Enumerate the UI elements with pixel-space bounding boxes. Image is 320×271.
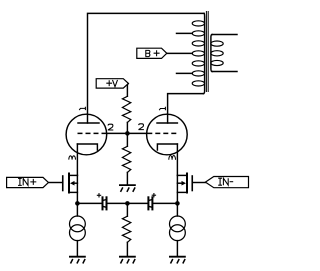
- pin label 1 of V2: [159, 107, 165, 110]
- tube V1 cathode left leg / pin 3 wire down to Q1 drain: [76, 144, 78, 175]
- capacitor C1 right plate: [106, 197, 108, 209]
- tube V2 right triode envelope: [147, 114, 188, 155]
- transformer T1 core line 1: [205, 12, 207, 92]
- wire R1 to grid bias node: [126, 122, 128, 133]
- current source I1 circle 1: [70, 216, 86, 232]
- capacitor C1 plate nubs: [104, 199, 106, 202]
- transformer T1 primary loop 3: [192, 41, 204, 46]
- current source I2 circle 2: [170, 225, 186, 241]
- transformer T1 primary loop 1: [192, 21, 204, 26]
- transistor Q1 bulk arrow: [70, 181, 75, 186]
- transformer T1 primary loop 4: [192, 51, 204, 56]
- label IN-: [218, 178, 222, 185]
- tube V2 cathode right leg / pin 3 wire down to Q2 drain: [176, 144, 178, 175]
- resistor R2 between grid bias node and ground: [122, 146, 130, 172]
- transformer T1 primary winding axis with end hooks: [203, 13, 204, 93]
- tube V2 cathode bar and left leg: [157, 144, 177, 150]
- capacitor C2 plate nubs: [150, 199, 152, 202]
- current source I2 circle 1: [170, 216, 186, 232]
- power flag B+: [137, 48, 167, 58]
- ground symbol below I2: [169, 257, 186, 264]
- transistor Q2 source tab: [177, 191, 186, 193]
- input flag IN-: [205, 177, 248, 188]
- wire center bottom node to capacitor C2: [127, 202, 147, 204]
- node dot grid bias: [125, 131, 130, 136]
- wire center bottom node down to resistor R3: [126, 203, 128, 216]
- label +V: [106, 80, 112, 86]
- wire I2 down to ground: [176, 241, 178, 256]
- wire IN- flag to Q2 gate: [193, 182, 205, 184]
- pin label 2 of V2: [138, 124, 144, 130]
- wire grid bias node down to resistor R2: [126, 133, 128, 146]
- capacitor C2 left plate: [147, 197, 149, 209]
- tube V1 left triode envelope: [66, 114, 107, 155]
- wire top lead: left tube plate up and over to transformer primary: [88, 13, 205, 123]
- wire right tube plate up and over to transformer primary bottom: [168, 94, 204, 123]
- node dot Q1 source junction: [75, 201, 80, 206]
- wire IN+ flag to Q1 gate: [48, 182, 62, 184]
- tube V2 grid dashed line: [147, 132, 177, 134]
- tube V1 plate bar: [78, 122, 99, 124]
- pin label 2 of V1: [108, 124, 114, 130]
- input flag IN+: [7, 177, 49, 187]
- transistor Q1 bulk tab: [74, 182, 77, 184]
- wire primary tap stub lower: [177, 72, 193, 74]
- label B+: [145, 50, 150, 57]
- current source I1 circle 2: [70, 225, 86, 241]
- wire C1 to center bottom node: [108, 202, 128, 204]
- wire C2 to Q2 source node: [153, 202, 177, 204]
- transistor Q1 source tab: [70, 191, 77, 193]
- pin label 1 of V1: [79, 107, 85, 110]
- wire +V flag down to resistor R1: [126, 84, 129, 97]
- capacitor C2 right plate: [151, 197, 153, 209]
- transistor Q2 bulk arrow: [182, 181, 187, 186]
- transformer T1 secondary loop 2: [211, 51, 223, 56]
- resistor R1 between +V and grid bias node: [122, 96, 130, 122]
- label IN+: [18, 178, 22, 185]
- transformer T1 primary loop 2: [192, 31, 204, 36]
- wire primary tap stub upper: [177, 32, 193, 34]
- capacitor C1 polarity plus: [97, 193, 101, 197]
- wire R3 down to ground: [126, 242, 128, 256]
- resistor R3 between center bottom node and ground: [122, 216, 130, 242]
- transistor Q2 gate bar: [191, 176, 193, 191]
- wire Q2 source node down to current source I2: [176, 203, 178, 216]
- wire B+ lead to primary center tap: [167, 52, 192, 54]
- ground symbol below R2: [119, 185, 136, 192]
- transistor Q1 drain tab: [70, 174, 77, 176]
- tube V1 cathode bar and right leg: [77, 144, 97, 150]
- wire grid rail between tubes through bias node: [107, 132, 147, 134]
- transistor Q2 drain-source rail: [176, 175, 178, 203]
- power flag +V: [96, 79, 128, 88]
- transformer T1 secondary loop 3: [211, 60, 223, 65]
- pin label 3 of V2: [169, 156, 176, 160]
- wire secondary bottom lead: [212, 71, 237, 73]
- wire I1 down to ground: [76, 241, 78, 256]
- transformer T1 primary loop 5: [192, 61, 204, 66]
- transistor Q1 drain-source rail: [76, 175, 78, 203]
- pin label 3 of V1: [69, 156, 76, 160]
- wire Q1 source node down to current source I1: [76, 203, 78, 216]
- ground symbol below I1: [69, 257, 86, 264]
- transistor Q2 drain tab: [177, 174, 186, 176]
- capacitor C1 left plate: [102, 197, 104, 209]
- transformer T1 secondary loop 1: [211, 41, 223, 46]
- transistor Q2 channel bar: [186, 174, 188, 193]
- capacitor C2 polarity plus: [152, 193, 156, 197]
- tube V1 grid dashed line: [78, 132, 107, 134]
- transformer T1 core line 2: [207, 12, 209, 92]
- wire Q1 source node to capacitor C1: [77, 202, 101, 204]
- transformer T1 secondary winding axis with end hooks: [211, 35, 212, 72]
- wire R2 down to ground: [126, 172, 128, 184]
- node dot Q2 source junction: [175, 201, 180, 206]
- wire secondary top lead: [212, 34, 237, 36]
- transistor Q1 gate bar: [62, 176, 64, 191]
- tube V2 plate bar: [157, 122, 177, 124]
- transistor Q2 bulk tab: [177, 182, 181, 184]
- node dot center bottom junction: [125, 201, 130, 206]
- transistor Q1 channel bar: [68, 174, 70, 193]
- ground symbol below R3: [119, 257, 136, 264]
- transformer T1 primary loop 7: [192, 81, 204, 86]
- transformer T1 primary loop 6: [192, 71, 204, 76]
